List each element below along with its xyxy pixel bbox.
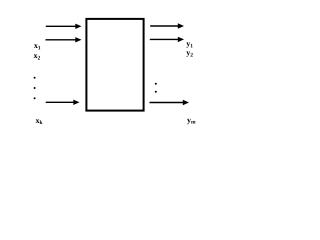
output arrow y2: [150, 37, 184, 42]
input arrow xk: [46, 100, 80, 105]
black-box U1: [86, 19, 143, 111]
input arrow x1: [46, 24, 82, 29]
output arrow y1: [150, 23, 184, 28]
right ellipsis dot 2: [155, 91, 157, 93]
left ellipsis dot 1: [34, 77, 36, 79]
output arrow ym: [150, 100, 190, 105]
right ellipsis dot 1: [155, 83, 157, 85]
input arrow x2: [46, 37, 82, 42]
left ellipsis dot 3: [34, 97, 36, 99]
left ellipsis dot 2: [34, 87, 36, 89]
